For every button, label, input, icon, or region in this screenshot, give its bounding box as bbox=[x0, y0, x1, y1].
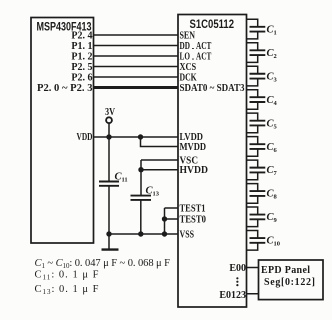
svg-text:VDD: VDD bbox=[77, 132, 93, 143]
svg-text:XCS: XCS bbox=[180, 62, 197, 73]
svg-text:P1. 2: P1. 2 bbox=[71, 51, 92, 62]
svg-text:C11: C11 bbox=[115, 172, 128, 184]
svg-text:E00: E00 bbox=[229, 263, 246, 274]
svg-text:C1: C1 bbox=[267, 24, 277, 36]
svg-text:VSS: VSS bbox=[180, 229, 195, 240]
svg-text:C8: C8 bbox=[267, 189, 278, 201]
svg-text:C7: C7 bbox=[267, 165, 278, 177]
svg-text:C2: C2 bbox=[267, 48, 277, 60]
svg-text:P2. 6: P2. 6 bbox=[71, 72, 92, 83]
svg-text:E0123: E0123 bbox=[219, 290, 246, 301]
svg-text:C1 ~ C10: 0. 047 μ F ~ 0. 068: C1 ~ C10: 0. 047 μ F ~ 0. 068 μ F bbox=[35, 258, 171, 270]
svg-text:C13: C13 bbox=[146, 186, 160, 198]
svg-text:SEN: SEN bbox=[180, 30, 196, 41]
svg-text:DCK: DCK bbox=[180, 72, 197, 83]
svg-text:C10: C10 bbox=[267, 236, 281, 248]
svg-text:S1C05112: S1C05112 bbox=[190, 17, 235, 31]
svg-text:Seg[0:122]: Seg[0:122] bbox=[264, 277, 315, 288]
svg-text:SDAT0 ~ SDAT3: SDAT0 ~ SDAT3 bbox=[180, 83, 245, 94]
svg-text:P2. 5: P2. 5 bbox=[71, 62, 92, 73]
svg-text:TEST1: TEST1 bbox=[180, 203, 206, 214]
svg-text:EPD Panel: EPD Panel bbox=[261, 265, 310, 276]
svg-text:C3: C3 bbox=[267, 71, 278, 83]
svg-text:C5: C5 bbox=[267, 118, 278, 130]
svg-text:C6: C6 bbox=[267, 142, 278, 154]
svg-text:C11: 0. 1 μ F: C11: 0. 1 μ F bbox=[35, 270, 99, 282]
svg-text:HVDD: HVDD bbox=[180, 165, 209, 176]
svg-text:P2. 4: P2. 4 bbox=[71, 30, 92, 41]
svg-text:P2. 0 ~ P2. 3: P2. 0 ~ P2. 3 bbox=[37, 83, 93, 94]
svg-text:3V: 3V bbox=[105, 107, 116, 118]
svg-text:P1. 1: P1. 1 bbox=[71, 41, 92, 52]
svg-text:C13: 0. 1 μ F: C13: 0. 1 μ F bbox=[35, 284, 99, 296]
svg-text:MVDD: MVDD bbox=[180, 142, 207, 153]
svg-text:TEST0: TEST0 bbox=[180, 214, 207, 225]
svg-text:C4: C4 bbox=[267, 95, 278, 107]
svg-text:C9: C9 bbox=[267, 212, 278, 224]
